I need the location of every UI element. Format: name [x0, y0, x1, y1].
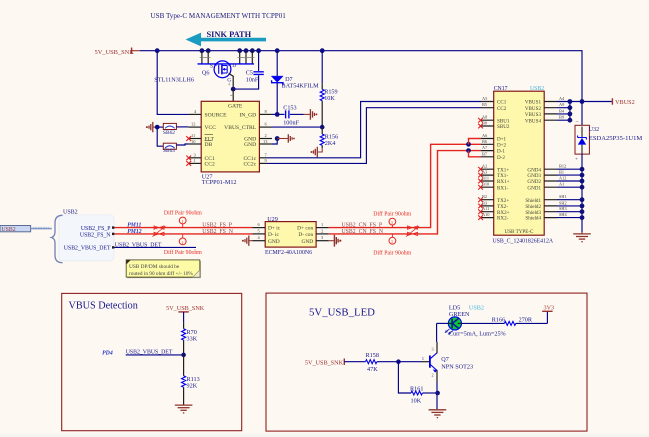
svg-text:5V_USB_LED: 5V_USB_LED: [309, 307, 375, 319]
svg-text:10K: 10K: [411, 398, 422, 405]
junction D-2 stub: [466, 148, 481, 157]
svg-text:USB Type-C MANAGEMENT WITH TCP: USB Type-C MANAGEMENT WITH TCPP01: [151, 12, 287, 20]
harness USB2 region: [52, 210, 115, 263]
power port 5V_USB_SNK led: [305, 359, 366, 367]
title text: [151, 12, 287, 20]
svg-text:ESDA25P35-1U1M: ESDA25P35-1U1M: [589, 135, 643, 142]
svg-text:SB63: SB63: [163, 148, 175, 154]
svg-text:SINK PATH: SINK PATH: [207, 30, 252, 39]
svg-text:12: 12: [191, 122, 195, 127]
svg-text:USB_C_12401826E412A: USB_C_12401826E412A: [493, 239, 554, 245]
wire USB2_FS_N red: [114, 233, 252, 235]
svg-text:GATE: GATE: [228, 103, 243, 109]
directive circle top left: [164, 209, 202, 227]
no-connect X marks CN17: [478, 118, 483, 220]
svg-text:VBUS3: VBUS3: [525, 112, 542, 118]
svg-text:B1: B1: [559, 170, 564, 175]
svg-text:VBUS2: VBUS2: [525, 106, 542, 112]
directive circle bottom left: [164, 234, 202, 256]
svg-text:Curr=5mA, Lum=25%: Curr=5mA, Lum=25%: [449, 330, 506, 337]
svg-text:B8: B8: [482, 121, 487, 126]
svg-text:U29: U29: [267, 216, 278, 223]
svg-text:B12: B12: [559, 164, 566, 169]
wire GND column: [580, 154, 585, 233]
junction gate node: [230, 87, 235, 102]
svg-text:routed in 90 ohm diff +/- 10%: routed in 90 ohm diff +/- 10%: [129, 270, 193, 277]
svg-text:U32: U32: [589, 127, 599, 133]
transistor Q6: [154, 51, 254, 89]
svg-text:D+ ic: D+ ic: [268, 226, 281, 232]
svg-text:B9: B9: [559, 115, 564, 120]
resistor R161: [410, 386, 438, 405]
junction D+1 stub: [466, 139, 481, 147]
led LD5: [437, 304, 506, 361]
svg-text:1: 1: [391, 239, 393, 244]
svg-text:B7: B7: [482, 151, 488, 156]
svg-text:2: 2: [321, 228, 323, 233]
svg-text:R166: R166: [492, 317, 505, 324]
ground left of SB62: [146, 122, 163, 146]
svg-text:C153: C153: [283, 104, 296, 111]
svg-text:USB2_VBUS_DET: USB2_VBUS_DET: [115, 242, 162, 248]
wire USB2_CN_FS_N red: [329, 151, 481, 234]
svg-text:A1: A1: [559, 182, 564, 187]
svg-text:USB2: USB2: [2, 227, 16, 233]
svg-text:D-2: D-2: [497, 155, 505, 161]
svg-text:TCPP01-M12: TCPP01-M12: [202, 179, 237, 186]
svg-text:SH3: SH3: [559, 206, 567, 211]
svg-text:USB2_FS_N: USB2_FS_N: [80, 232, 111, 238]
svg-text:RX1+: RX1+: [497, 179, 510, 185]
svg-text:GND2: GND2: [527, 179, 541, 185]
svg-text:3: 3: [432, 346, 434, 351]
wire 5V rail: [140, 51, 582, 102]
connector CN17 USB TYPE-C: [493, 86, 554, 245]
svg-text:BAT54KFILM: BAT54KFILM: [282, 82, 320, 89]
svg-text:Shield1: Shield1: [525, 198, 541, 204]
svg-text:VBUS Detection: VBUS Detection: [69, 301, 138, 312]
svg-text:5V_USB_SNK: 5V_USB_SNK: [305, 359, 344, 366]
svg-text:A10: A10: [482, 212, 489, 217]
svg-text:USB2_FS_P: USB2_FS_P: [81, 226, 111, 232]
svg-text:A2: A2: [482, 164, 487, 169]
wire USB2_CN_FS_P red: [329, 144, 481, 227]
capacitor C153: [272, 104, 304, 126]
ground R156: [311, 147, 323, 158]
svg-text:1: 1: [194, 158, 196, 163]
ic U27 TCPP01: [201, 101, 259, 186]
resistor R113: [182, 355, 200, 405]
svg-text:92K: 92K: [187, 383, 198, 390]
svg-text:11: 11: [191, 133, 195, 138]
wire rail to U27 SOURCE: [157, 51, 188, 115]
svg-text:USB2: USB2: [530, 86, 544, 92]
svg-text:10K: 10K: [324, 95, 335, 102]
svg-text:1: 1: [181, 240, 183, 245]
svg-text:A12: A12: [559, 176, 566, 181]
svg-text:10nF: 10nF: [246, 76, 259, 83]
svg-text:+: +: [575, 158, 578, 163]
svg-text:5V_USB_SNK: 5V_USB_SNK: [166, 305, 205, 312]
svg-text:Diff Pair 90ohm: Diff Pair 90ohm: [373, 250, 411, 257]
pin stubs CN17 right VBUS: [544, 96, 565, 120]
junction rail dots: [155, 48, 325, 53]
svg-text:D-1: D-1: [497, 149, 505, 155]
pin stubs CN17 right GND: [544, 164, 582, 188]
svg-text:B11: B11: [482, 176, 489, 181]
svg-text:GND: GND: [268, 239, 280, 245]
diff pair marker right: [406, 226, 419, 237]
svg-text:RX1-: RX1-: [497, 185, 509, 191]
pin stubs CN17 right Shield: [544, 194, 582, 217]
net label USB2_FS_P: [202, 223, 232, 229]
svg-text:VBUS_CTRL: VBUS_CTRL: [224, 125, 257, 131]
svg-text:SH1: SH1: [559, 194, 567, 199]
ground earth Q7: [429, 410, 447, 418]
svg-text:A6: A6: [482, 133, 488, 138]
svg-text:SB62: SB62: [163, 130, 175, 136]
svg-text:VCC: VCC: [205, 125, 217, 131]
wire CC1c to CN17: [267, 102, 481, 158]
diff pair marker left: [153, 226, 166, 237]
ground earth R113: [175, 405, 193, 413]
svg-text:ECMF2-40A100N6: ECMF2-40A100N6: [265, 250, 312, 256]
ground U29 pin3: [329, 235, 342, 247]
svg-text:D: D: [232, 63, 236, 69]
harness port USB2: [0, 226, 52, 234]
wire base to R161: [398, 362, 411, 393]
svg-text:A5: A5: [482, 96, 487, 101]
svg-text:1: 1: [321, 222, 323, 227]
net label USB2_CN_FS_N: [342, 229, 384, 235]
wire USB2_VBUS_DET stub: [114, 242, 196, 248]
svg-text:B3: B3: [482, 200, 487, 205]
ground C153: [304, 109, 318, 120]
svg-text:2K4: 2K4: [325, 140, 336, 147]
frame 5V_USB_LED box: [266, 293, 587, 431]
svg-text:GND: GND: [302, 239, 314, 245]
diode D7: [271, 51, 319, 115]
port PM12 label: [127, 229, 142, 235]
sink path arrow: [186, 30, 267, 47]
wire USB2_VBUS_DET det: [126, 350, 186, 358]
svg-text:SBU2: SBU2: [497, 124, 510, 130]
svg-text:CC2: CC2: [205, 161, 215, 167]
svg-text:R161: R161: [410, 386, 423, 393]
svg-text:A7: A7: [482, 145, 488, 150]
capacitor C5: [233, 51, 264, 89]
svg-text:B5: B5: [482, 102, 487, 107]
wire VBUS tie: [557, 99, 612, 123]
svg-text:D+2: D+2: [497, 142, 507, 148]
svg-text:PD4: PD4: [102, 350, 113, 356]
no-connect X marks U27: [186, 136, 191, 166]
directive circle top right: [373, 210, 411, 227]
svg-text:USB2_FS_P: USB2_FS_P: [202, 223, 232, 229]
resistor R159: [320, 51, 337, 127]
svg-text:USB TYPE-C: USB TYPE-C: [505, 229, 535, 235]
svg-text:Q6: Q6: [202, 69, 210, 76]
svg-text:USB DP/DM should be: USB DP/DM should be: [129, 264, 180, 270]
svg-text:Diff Pair 90ohm: Diff Pair 90ohm: [164, 209, 202, 216]
junction base node: [396, 356, 430, 364]
svg-text:USB2_VBUS_DET: USB2_VBUS_DET: [64, 245, 111, 251]
svg-text:Diff Pair 90ohm: Diff Pair 90ohm: [164, 249, 202, 256]
jumper SB62: [163, 123, 189, 136]
svg-text:USB2: USB2: [63, 210, 78, 216]
svg-text:B10: B10: [482, 182, 489, 187]
frame VBUS Detection box: [62, 293, 242, 430]
svg-text:SOURCE: SOURCE: [205, 113, 228, 119]
svg-text:DB: DB: [205, 142, 213, 148]
svg-text:A3: A3: [482, 170, 487, 175]
svg-text:R158: R158: [366, 352, 379, 359]
resistor R166: [462, 317, 548, 326]
port PD4 label: [102, 350, 113, 356]
svg-text:2: 2: [432, 372, 434, 377]
wire CC2c to CN17: [267, 108, 481, 164]
svg-text:Shield4: Shield4: [525, 216, 541, 222]
wire USB2_FS_P red: [114, 227, 252, 229]
directive circle bottom right: [373, 234, 411, 257]
resistor R158: [366, 352, 399, 373]
svg-text:A9: A9: [559, 102, 564, 107]
svg-text:D+ con: D+ con: [297, 226, 313, 232]
svg-text:33K: 33K: [187, 336, 198, 343]
svg-text:RX2-: RX2-: [497, 216, 509, 222]
svg-text:D- ic: D- ic: [268, 232, 280, 238]
pin stubs U27 right: [259, 109, 272, 163]
svg-text:VBUS2: VBUS2: [615, 99, 635, 106]
pin stubs U27 left: [189, 109, 202, 163]
svg-text:VBUS1: VBUS1: [525, 100, 542, 106]
pin stubs U29 left: [253, 222, 266, 241]
svg-text:USB2_CN_FS_N: USB2_CN_FS_N: [342, 229, 384, 235]
svg-text:SH4: SH4: [559, 212, 567, 217]
svg-text:5V_USB_SNK: 5V_USB_SNK: [95, 49, 135, 56]
svg-text:4: 4: [228, 82, 230, 87]
svg-text:270R: 270R: [519, 317, 533, 324]
svg-text:IN_GD: IN_GD: [239, 113, 256, 119]
svg-text:GND1: GND1: [527, 185, 541, 191]
svg-text:S: S: [210, 64, 213, 70]
svg-text:2: 2: [265, 133, 267, 138]
svg-text:NPN SOT23: NPN SOT23: [441, 363, 473, 370]
power port 5V_USB_SNK top: [95, 48, 141, 57]
svg-text:A8: A8: [482, 115, 487, 120]
ground U29 pin4: [242, 236, 253, 246]
resistor R156: [320, 127, 338, 148]
note box DP/DM: [126, 260, 201, 278]
wire VBUS_CTRL node: [272, 125, 325, 130]
svg-text:CC2c: CC2c: [243, 161, 256, 167]
svg-text:Diff Pair 90ohm: Diff Pair 90ohm: [373, 210, 411, 217]
svg-text:1: 1: [181, 219, 183, 224]
svg-text:SH2: SH2: [559, 200, 567, 205]
net label USB2_CN_FS_P: [342, 223, 383, 229]
resistor R70: [182, 323, 198, 355]
svg-text:Q7: Q7: [441, 356, 449, 363]
pin stubs U29 right: [316, 222, 329, 241]
svg-text:CC2: CC2: [497, 106, 507, 112]
transistor Q7: [430, 342, 473, 382]
pin stubs CN17 left: [481, 96, 494, 218]
power port 3V3: [542, 305, 554, 324]
svg-text:CN17: CN17: [494, 86, 508, 92]
svg-text:A11: A11: [482, 206, 489, 211]
svg-text:3V3: 3V3: [544, 305, 555, 312]
svg-text:USB2_FS_N: USB2_FS_N: [202, 229, 233, 235]
svg-text:47K: 47K: [367, 366, 378, 373]
svg-text:B6: B6: [482, 139, 488, 144]
svg-text:USB2_CN_FS_P: USB2_CN_FS_P: [342, 223, 383, 229]
svg-text:B2: B2: [482, 194, 487, 199]
svg-text:D- con: D- con: [298, 232, 313, 238]
svg-text:GND: GND: [244, 142, 256, 148]
tvs U32 ESDA25P35: [575, 102, 642, 163]
power port VBUS2: [612, 98, 634, 106]
power port 5V_USB_SNK vbusdet: [166, 305, 205, 323]
svg-text:STL11N3LLH6: STL11N3LLH6: [154, 77, 194, 84]
svg-text:1: 1: [391, 220, 393, 225]
svg-text:USB2: USB2: [469, 304, 484, 311]
wire emitter to gnd: [435, 382, 440, 409]
svg-text:B4: B4: [559, 108, 565, 113]
ground GND pins U27: [272, 134, 295, 144]
jumper SB63: [163, 143, 189, 154]
svg-text:VBUS4: VBUS4: [525, 118, 542, 124]
net label USB2_FS_N: [202, 229, 233, 235]
port PM11 label: [127, 222, 141, 228]
ic U29 ECMF2: [265, 216, 316, 256]
svg-text:TX2+: TX2+: [497, 198, 509, 204]
svg-text:A4: A4: [559, 96, 565, 101]
ground earth CN17: [573, 232, 591, 241]
svg-text:CC1: CC1: [497, 100, 507, 106]
svg-text:100nF: 100nF: [283, 119, 299, 126]
